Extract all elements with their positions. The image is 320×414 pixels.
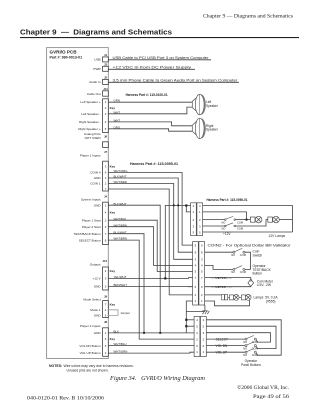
svg-text:J7: J7 [104,150,108,154]
junction dots [143,204,187,333]
svg-text:— METER+ —: — METER+ — [211,276,232,280]
svg-text:Page 49 of 56: Page 49 of 56 [253,393,290,400]
wire SELECT button to bottom pair [108,240,194,339]
connector J7 (Player 1 Inputs) [103,161,109,191]
junction GND crossing A [173,204,175,206]
svg-text:VOL UP Button: VOL UP Button [80,351,101,355]
wire row2 to switch1 [203,219,225,221]
svg-text:(#555): (#555) [266,300,276,304]
svg-text:040-0120-01 Rev. B 10/10/200: 040-0120-01 Rev. B 10/10/2006 [27,395,104,401]
svg-text:Chapter 9 — Diagrams and Sch: Chapter 9 — Diagrams and Schematics [203,13,293,19]
svg-text:Key: Key [110,337,116,341]
wire right speaker + (ORG) [108,129,192,131]
switch TEST/BACK [233,266,245,271]
pin numbers inside connectors [105,100,107,355]
wire select row to switch [206,338,245,340]
svg-text:NO: NO [231,253,235,257]
svg-text:SELECT: SELECT [216,337,228,341]
connector J2 (Speakers) [103,99,109,133]
svg-text:Mode Select: Mode Select [83,298,100,302]
wire row4 to TEST/BACK switch [205,265,233,269]
svg-text:Player 1 Inputs: Player 1 Inputs [80,153,101,157]
junction lamp feed row4 [185,204,187,206]
svg-text:Harness Part #: 115-0096-01: Harness Part #: 115-0096-01 [207,198,248,202]
svg-text:Left Speaker -: Left Speaker - [81,112,100,116]
wire stub row 4 bottom pair [186,319,194,321]
svg-text:Panel Buttons: Panel Buttons [241,363,261,367]
switch select [245,336,256,341]
svg-text:VOL DN Button: VOL DN Button [79,344,100,348]
svg-text:VOL DN: VOL DN [216,344,228,348]
wire COIN1 to pair row 3 [108,184,192,260]
connector J11 (Audio Out) [103,91,109,96]
wire +12V branch to row 1 [186,206,190,212]
wire left speaker - (WHT) [108,107,192,114]
switch SW2 (lamp) [225,223,236,227]
svg-text:GND: GND [94,285,102,289]
PCB outline box [47,48,109,359]
wire lamp return row1 [205,297,250,305]
switch coin [233,248,245,253]
wire J8 GND row [108,332,194,334]
svg-text:J1: J1 [104,53,108,57]
svg-text:12V Lamps: 12V Lamps [269,234,286,238]
left speaker [192,94,205,114]
connector pair P2 left [193,242,199,305]
svg-text:J5: J5 [104,75,108,79]
wire jumper pin 4 [108,310,119,316]
svg-text:COM: COM [252,340,258,344]
switch vol up [245,349,256,354]
svg-text:GND: GND [94,331,102,335]
wire METER- [205,285,251,287]
svg-text:Figure 34. GVRI/O Wiring Dia: Figure 34. GVRI/O Wiring Diagram [109,375,205,382]
connector pair P1 right [197,203,203,236]
connector name labels (left of edge) [80,58,101,328]
wire VOL DN [108,345,194,347]
harness labels [126,93,248,202]
svg-text:NO: NO [243,347,247,351]
wire right speaker - (WHT) [108,122,192,126]
svg-text:SELECT Button: SELECT Button [79,238,101,242]
wire +12VDC in [108,68,195,70]
lamp DS2 [268,216,280,223]
svg-text:Right Speaker -: Right Speaker - [79,120,101,124]
svg-text:J9: J9 [104,295,108,299]
wire +12V riser [165,206,190,279]
wire J10 GND to row 6 [108,285,192,287]
wire METER+ [205,278,251,280]
wire lamp return rail [203,231,293,233]
lamp DS1 [250,216,262,223]
svg-text:Speaker: Speaker [206,128,219,132]
connector J8 (Player 2 Inputs) [103,328,109,357]
connector J9 (Mode Select) [103,301,109,318]
junction bottom pair row5 [185,325,187,327]
svg-text:+12 V: +12 V [92,277,101,281]
wire VOL UP [108,351,194,354]
connector J10 (Outputs) [103,267,109,290]
svg-text:Left Speaker +: Left Speaker + [80,100,100,104]
wire COM rail inner [206,333,270,342]
svg-text:System Inputs: System Inputs [81,197,101,201]
svg-text:PWR: PWR [93,67,101,71]
wire USB cable [108,59,211,61]
svg-text:TEST/BACK Button: TEST/BACK Button [74,232,101,236]
svg-text:NOTES:: NOTES: [49,364,62,368]
wire J7 GND to pair row 8 [108,178,192,252]
wire colour labels [114,99,129,354]
svg-text:Part #: 980-0013-01: Part #: 980-0013-01 [50,56,83,60]
svg-text:COM: COM [237,220,243,224]
cable description labels [113,56,239,83]
svg-text:Player 2 Start: Player 2 Start [82,225,101,229]
svg-text:4.5V, .2W: 4.5V, .2W [257,283,272,287]
svg-text:GND: GND [94,203,102,207]
wire vol up row to switch [206,351,245,353]
svg-text:NO: NO [222,227,226,231]
connector J5 (Audio In) [103,79,109,84]
connector pair P3 left [194,317,200,357]
switch vol dn [245,342,256,347]
coin meter M1 [248,279,254,286]
pin name labels (left of connectors) [74,100,102,355]
svg-text:Key: Key [110,269,116,273]
connector J4 (System Inputs) [103,202,109,244]
svg-text:Harness Part #: 115-0100-01: Harness Part #: 115-0100-01 [126,93,168,97]
heading rule [20,37,299,38]
wire GND link to chassis [186,311,205,313]
svg-text:Speaker: Speaker [206,104,219,108]
wire vol dn row to switch [206,345,245,347]
wire switch1 to lamp1 [235,219,250,221]
svg-text:J6: J6 [104,135,108,139]
Key labels [110,106,116,341]
svg-text:— METER - —: — METER - — [211,285,233,289]
svg-text:Jumper: Jumper [120,311,130,315]
wire lamp +12 rail [203,206,293,232]
svg-text:NOT USED: NOT USED [85,136,102,140]
svg-text:COM: COM [237,227,243,231]
svg-text:VOL UP: VOL UP [216,350,228,354]
wire J4 GND bus [108,205,160,333]
svg-text:USB: USB [94,58,100,62]
svg-text:Audio In: Audio In [89,80,101,84]
switch SW1 (lamp) [225,216,236,220]
wire row2 to lamps [205,294,222,296]
wire switch2 to lamp2 [235,220,268,226]
wire left speaker + (GRN) [108,101,192,103]
svg-text:Right Speaker +: Right Speaker + [78,127,100,131]
svg-text:J11: J11 [103,87,108,91]
wire +12V out to row 7 [108,277,192,280]
junction +12V riser tap [164,277,166,279]
wire audio cable [108,81,239,83]
lamp DS3 [228,295,239,301]
wire TEST/BACK to GND row [108,234,144,333]
svg-text:J4: J4 [104,194,108,198]
svg-text:COM: COM [252,353,258,357]
junction GND bus join [159,332,161,334]
svg-text:Switch: Switch [253,253,263,257]
svg-text:NO: NO [231,270,235,274]
wire row8 to coin switch [205,251,233,253]
svg-text:Chapter 9 — Diagrams and Sch: Chapter 9 — Diagrams and Schematics [20,28,172,37]
svg-text:NO: NO [243,340,247,344]
wire GND riser to bottom pair [186,301,192,333]
svg-text:NO: NO [243,353,247,357]
wire row1 to lamp1 [203,212,247,220]
svg-text:Player 2 Inputs: Player 2 Inputs [80,324,101,328]
svg-text:GND: GND [94,314,102,318]
wire row3 to switch2 [203,225,225,227]
wire lamp2 to rail [279,219,292,221]
wire COIN4 to pair row 9 [108,173,192,246]
designator labels [102,53,108,324]
wire Player1 Start to row 5 [108,220,192,271]
svg-text:COM: COM [240,253,246,257]
wire chassis stub [204,305,206,311]
wire J7 pin7 to pair row 2 [108,189,192,295]
wire COM rail middle [206,326,276,348]
connector J3 (PWR) [103,66,109,71]
svg-text:COM: COM [240,270,246,274]
connector pair P1 left [191,203,197,236]
svg-text:J3: J3 [104,62,108,66]
junction bottom pair row4 [185,319,187,321]
wire coin switch COM down [245,252,251,269]
svg-text:GND: GND [94,176,102,180]
connector pair P2 right [199,242,205,305]
connector J6 (Analog Pots, not used) [103,142,109,148]
svg-text:J10: J10 [102,259,107,263]
lamp DS4 [239,295,251,301]
svg-text:COIN 4: COIN 4 [90,170,101,174]
svg-text:Mode 1: Mode 1 [90,308,101,312]
wire stub row 5 bottom pair [186,325,194,327]
wire COM rail outer [206,320,281,355]
lamp connector inline [222,295,228,300]
svg-text:COM: COM [252,347,258,351]
junction TB GND join [143,332,145,334]
connector pair P3 right [201,317,207,357]
svg-text:Outputs: Outputs [90,262,101,266]
svg-text:COIN2 - For Optional Dollar Bi: COIN2 - For Optional Dollar Bill Validat… [208,243,292,247]
svg-text:Player 1 Start: Player 1 Start [82,218,101,222]
wire Player2 Start to row 4 [108,227,192,266]
svg-text:Key: Key [110,302,116,306]
svg-text:NO: NO [222,220,226,224]
right speaker [192,118,205,138]
svg-text:+12V: +12V [223,232,231,236]
svg-text:COIN 1: COIN 1 [90,181,101,185]
svg-text:Key: Key [110,211,116,215]
svg-text:©2006 Global VR, Inc.: ©2006 Global VR, Inc. [237,384,289,391]
svg-text:Harness Part #: 115-0095-01: Harness Part #: 115-0095-01 [130,162,178,166]
svg-text:J8: J8 [104,320,108,324]
junction GND crossing B [177,204,179,206]
svg-text:Audio Out: Audio Out [87,92,101,96]
junction lamp1 feed [246,219,248,221]
svg-text:Unused pins are not shown.: Unused pins are not shown. [67,368,109,372]
chassis ground [202,311,209,314]
svg-text:GVRI/O PCB: GVRI/O PCB [50,49,78,54]
svg-text:Button: Button [253,272,263,276]
connector J1 (USB) [103,57,109,62]
